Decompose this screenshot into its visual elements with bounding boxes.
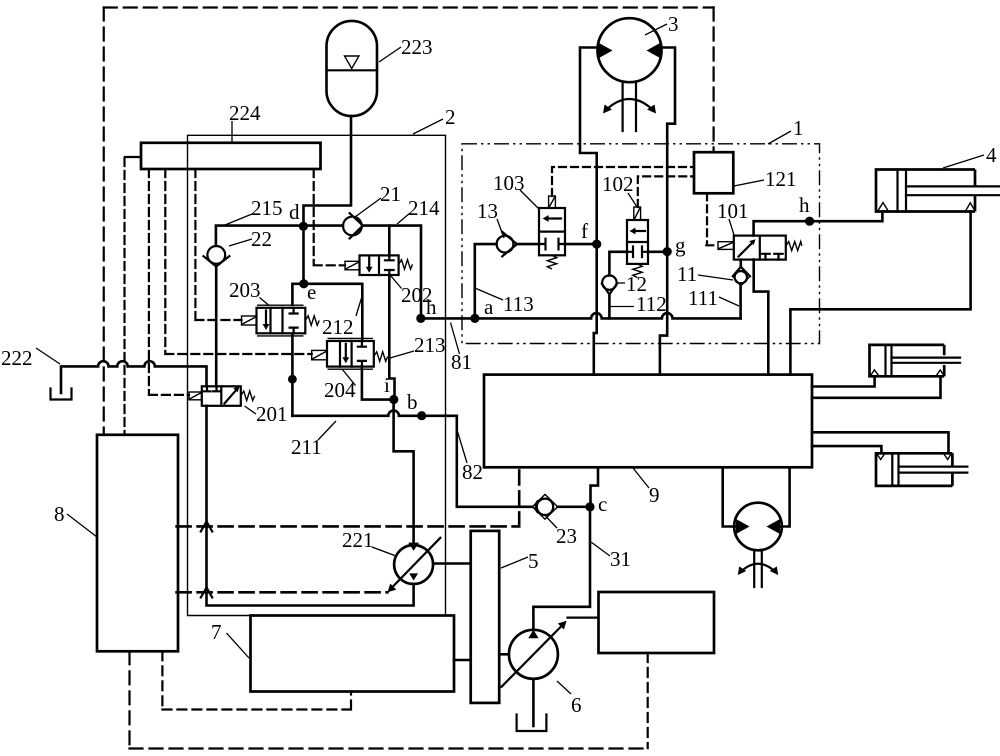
cylinder 4 piston: [898, 170, 907, 212]
wire block 9 bottom port to node c: [591, 467, 599, 507]
label 102: [628, 193, 637, 207]
label 204: [342, 369, 356, 386]
unit 8: [97, 435, 178, 652]
svg-text:204: 204: [324, 378, 356, 402]
svg-text:3: 3: [668, 12, 679, 36]
svg-text:21: 21: [380, 182, 401, 206]
svg-text:g: g: [675, 233, 686, 257]
spring of valve 203: [305, 316, 319, 326]
wire block 9 to cylinder bottom right port: [812, 432, 949, 453]
cylinder mid rod: [892, 358, 961, 363]
label 201: [245, 406, 257, 414]
svg-text:8: 8: [54, 502, 65, 526]
node f: [592, 240, 601, 249]
wire pump 6 left port to block 5: [499, 653, 509, 656]
svg-text:214: 214: [408, 196, 440, 220]
check valve 12: [602, 275, 616, 289]
valve 103 body: [539, 208, 565, 255]
wire cylinder 4 rod side to block 9: [790, 212, 970, 375]
tank 222 symbol: [51, 389, 72, 400]
wire check 13 to valve 103 and node f: [517, 243, 597, 246]
svg-text:11: 11: [677, 262, 697, 286]
label 215: [225, 214, 252, 225]
svg-text:22: 22: [251, 227, 272, 251]
svg-text:212: 212: [322, 315, 354, 339]
label 101: [729, 219, 734, 235]
svg-text:211: 211: [291, 435, 322, 459]
wire valve 204 bottom to node i: [362, 367, 394, 400]
label 112: [610, 306, 634, 308]
label 3: [645, 24, 667, 35]
solenoid pilot of valve 103: [549, 196, 556, 208]
node i: [389, 395, 398, 404]
svg-text:2: 2: [445, 105, 456, 129]
variable displacement arrow of pump 221: [392, 538, 441, 588]
pump 221 (variable): [394, 545, 433, 584]
arrow into pump 221: [408, 543, 419, 551]
label 221: [372, 547, 396, 556]
svg-text:81: 81: [451, 350, 472, 374]
label 7: [227, 633, 250, 658]
svg-text:4: 4: [986, 143, 997, 167]
control unit 121: [694, 152, 733, 193]
spring of valve 201: [241, 391, 255, 401]
spring of valve 101: [786, 242, 802, 251]
wire valve 101 top to cylinder 4: [754, 212, 883, 236]
svg-text:213: 213: [414, 333, 446, 357]
wire block 9 to cylinder mid left port: [812, 376, 875, 386]
spring of valve 102: [633, 264, 642, 278]
flow arrow on suction line upper: [201, 522, 212, 532]
svg-text:203: 203: [229, 278, 261, 302]
wire 215 from node d to check valve 22: [216, 226, 304, 246]
svg-text:h: h: [799, 193, 810, 217]
cylinder 4 body: [876, 170, 975, 212]
label 213: [390, 351, 414, 358]
svg-text:82: 82: [462, 460, 483, 484]
dashed control line bar to valve 203 pilot: [195, 169, 241, 320]
check valve 13: [497, 236, 514, 253]
label 111: [719, 297, 739, 306]
svg-text:c: c: [598, 492, 607, 516]
outer dashed control-bus border bottom: [130, 747, 648, 749]
block 5: [471, 531, 500, 703]
valve 102 body: [627, 220, 648, 264]
block 9: [484, 375, 812, 468]
junction node on 203 line: [288, 375, 297, 384]
wire valve 101 bottom left to check 11: [739, 260, 742, 267]
dashed control line B from unit 8 to pump 221 arrow: [177, 591, 388, 594]
label 202: [391, 276, 402, 289]
label 9: [633, 468, 649, 488]
svg-text:6: 6: [571, 693, 582, 717]
svg-text:f: f: [581, 219, 588, 243]
valve 204 body: [327, 341, 374, 367]
wire node d to node e: [302, 227, 305, 284]
wire c line: [558, 505, 590, 508]
boundary box 1 (dash-dot-dot): [462, 144, 820, 344]
tank symbol below pump 6: [517, 715, 547, 732]
motor 3 shaft: [623, 83, 636, 132]
svg-text:113: 113: [503, 292, 534, 316]
wire f line into block 9: [594, 244, 597, 375]
svg-text:d: d: [289, 200, 300, 224]
svg-text:5: 5: [528, 549, 539, 573]
hydraulic motor below block 9: [734, 503, 782, 551]
label 212: [356, 298, 362, 316]
svg-text:12: 12: [626, 272, 647, 296]
dashed pilot wire 121 to valve 101: [706, 193, 718, 245]
svg-text:222: 222: [1, 346, 33, 370]
label 214: [397, 213, 410, 224]
label 113: [476, 289, 503, 301]
label 222: [36, 348, 60, 364]
outer dashed control-bus border left: [103, 8, 105, 435]
solenoid pilot of valve 203: [242, 316, 257, 325]
wire motor 3 left port to node f: [580, 48, 598, 245]
svg-text:13: 13: [477, 199, 498, 223]
node a: [470, 314, 479, 323]
svg-text:224: 224: [229, 101, 261, 125]
svg-text:221: 221: [342, 528, 374, 552]
cylinder mid ports: [871, 370, 879, 376]
wire check valve 22 to valve 201 top: [215, 267, 218, 387]
svg-text:b: b: [407, 390, 418, 414]
label 82: [458, 432, 468, 464]
flow arrow on suction line lower: [201, 588, 212, 598]
dashed line unit 8 bottom to block 7: [162, 651, 351, 709]
label 211: [318, 421, 336, 440]
cylinder bottom rod: [899, 467, 968, 473]
check valve 11: [733, 267, 750, 286]
wire pump 221 inlet from node i: [394, 399, 414, 545]
check valve 23: [532, 494, 557, 519]
svg-text:121: 121: [765, 167, 797, 191]
svg-text:102: 102: [602, 172, 634, 196]
label 203: [260, 298, 269, 306]
svg-text:215: 215: [251, 196, 283, 220]
dashed control line bar to valve 201 pilot: [149, 169, 189, 395]
solenoid pilot of valve 201: [189, 392, 202, 400]
dashed line control block to border: [647, 653, 649, 748]
node e: [299, 279, 308, 288]
dashed pilot wire 121 to valve 102: [638, 176, 694, 207]
valve 202 body: [360, 255, 399, 275]
svg-text:23: 23: [556, 524, 577, 548]
label 223: [379, 47, 401, 62]
dashed pilot wire 121 to valve 103: [552, 167, 694, 196]
spring of valve 204: [374, 352, 388, 362]
variable displacement arrow of pump 6: [502, 625, 563, 687]
cylinder mid piston: [886, 345, 892, 376]
motor shaft: [754, 550, 762, 587]
controller bar 224: [141, 143, 321, 169]
svg-text:101: 101: [717, 199, 749, 223]
boundary box 2 (solid thin): [188, 135, 446, 615]
node b: [417, 411, 426, 420]
svg-text:i: i: [384, 373, 390, 397]
wire tank 222 suction line with hops: [61, 361, 207, 393]
label 1: [768, 131, 791, 144]
cylinder 4 rod: [906, 186, 999, 195]
cylinder bottom body: [876, 453, 952, 486]
solenoid pilot of valve 102: [634, 207, 641, 220]
wire 214 from check valve 21: [363, 226, 421, 319]
label 23: [546, 516, 558, 528]
label 31: [591, 542, 610, 556]
solenoid pilot of valve 101: [718, 242, 734, 250]
wire valve 102 right port to node g: [648, 251, 667, 254]
cylinder bottom piston: [892, 453, 898, 486]
label 2: [413, 119, 443, 134]
node h right: [805, 217, 814, 226]
node g: [663, 247, 672, 256]
wire 212 node e to valve 204 top: [304, 284, 363, 341]
wire 112 valve 102 left port through check 12: [609, 252, 627, 276]
valve 101 body: [734, 236, 786, 260]
motor rotation arrow: [741, 564, 776, 572]
svg-text:223: 223: [401, 35, 433, 59]
label 121: [734, 180, 764, 186]
dashed control line from bar stub to unit 8: [123, 158, 125, 435]
svg-text:e: e: [307, 280, 316, 304]
wire block 9 to motor right port: [781, 467, 790, 526]
wire pump 221 outlet to block 5: [433, 562, 471, 565]
wire block 9 to cylinder bottom left port: [812, 446, 881, 453]
outer dashed control-bus border top: [104, 6, 714, 8]
wire block 9 to cylinder mid right port: [812, 376, 941, 398]
svg-text:1: 1: [793, 116, 804, 140]
dashed control line bar to valve 204 pilot: [165, 169, 311, 354]
label 8: [67, 514, 97, 537]
spring of valve 103: [547, 255, 556, 269]
outer dashed control-bus border right: [712, 8, 714, 153]
label 11: [698, 275, 733, 280]
wire 211: [292, 410, 456, 415]
dashed control line A from unit 8 to block 9: [177, 467, 520, 526]
label 13: [497, 219, 504, 238]
wire pump 6 to tank: [532, 679, 535, 726]
spring of valve 202: [399, 260, 413, 270]
label 224: [231, 121, 233, 142]
wire 82 from node b to line c: [457, 416, 532, 507]
wire motor 3 right port to node g: [661, 48, 675, 252]
cylinder bottom ports: [877, 454, 885, 460]
wire valve 203 bottom to line 211: [291, 336, 294, 416]
svg-text:201: 201: [256, 402, 288, 426]
svg-text:a: a: [484, 295, 494, 319]
hydraulic motor 3: [598, 18, 662, 82]
dashed segment tank8 to bottom border: [128, 651, 130, 748]
cylinder 4 ports: [878, 203, 888, 211]
svg-text:31: 31: [610, 547, 631, 571]
svg-text:103: 103: [493, 171, 525, 195]
node d: [299, 222, 308, 231]
control block right of pump 6: [599, 592, 715, 653]
label 81: [451, 323, 460, 355]
wire 213 valve 202 bottom to node i: [389, 275, 394, 400]
wire valve 201 bottom to pump 221 suction: [207, 406, 414, 606]
label 103: [520, 190, 539, 209]
check valve 22: [207, 246, 225, 264]
solenoid pilot of valve 202: [345, 261, 360, 270]
label 22: [229, 239, 252, 246]
cylinder mid body: [870, 345, 945, 376]
valve 201 body: [202, 386, 241, 406]
wire 111 check 11 to line a: [739, 283, 742, 318]
wire g line into block 9: [660, 252, 667, 375]
block 7: [251, 616, 455, 692]
solenoid pilot of valve 204: [312, 350, 327, 359]
check valve 21: [304, 224, 344, 227]
wire 113 node a to check 13: [475, 244, 497, 318]
wire a line (81) with hops: [421, 313, 741, 318]
pump 6 (variable): [509, 630, 558, 679]
label 12: [617, 282, 625, 284]
node h left: [416, 314, 425, 323]
node c: [585, 502, 594, 511]
motor 3 rotation arrow: [606, 99, 653, 110]
wire 31 node c to pump 6: [533, 507, 590, 630]
svg-text:h: h: [426, 295, 437, 319]
label 6: [557, 681, 571, 694]
accumulator 223: [327, 21, 378, 116]
wire block 7 to block 5: [454, 659, 471, 662]
svg-text:111: 111: [688, 286, 718, 310]
wire block 9 to motor left port: [723, 467, 735, 526]
wire branch to valve 202 top: [388, 226, 391, 256]
wire node e to valve 203 top: [292, 284, 303, 305]
valve 203 body: [257, 308, 306, 334]
wire valve 101 bottom right to block 9: [754, 260, 769, 375]
label 21: [355, 198, 381, 217]
dashed control line bar to valve 202 pilot: [314, 169, 345, 265]
label 5: [501, 557, 528, 568]
stub from bar 224 left: [125, 156, 141, 158]
svg-text:7: 7: [211, 620, 222, 644]
wire accumulator to node d: [304, 116, 352, 225]
svg-text:9: 9: [649, 483, 660, 507]
label 4: [943, 155, 984, 168]
